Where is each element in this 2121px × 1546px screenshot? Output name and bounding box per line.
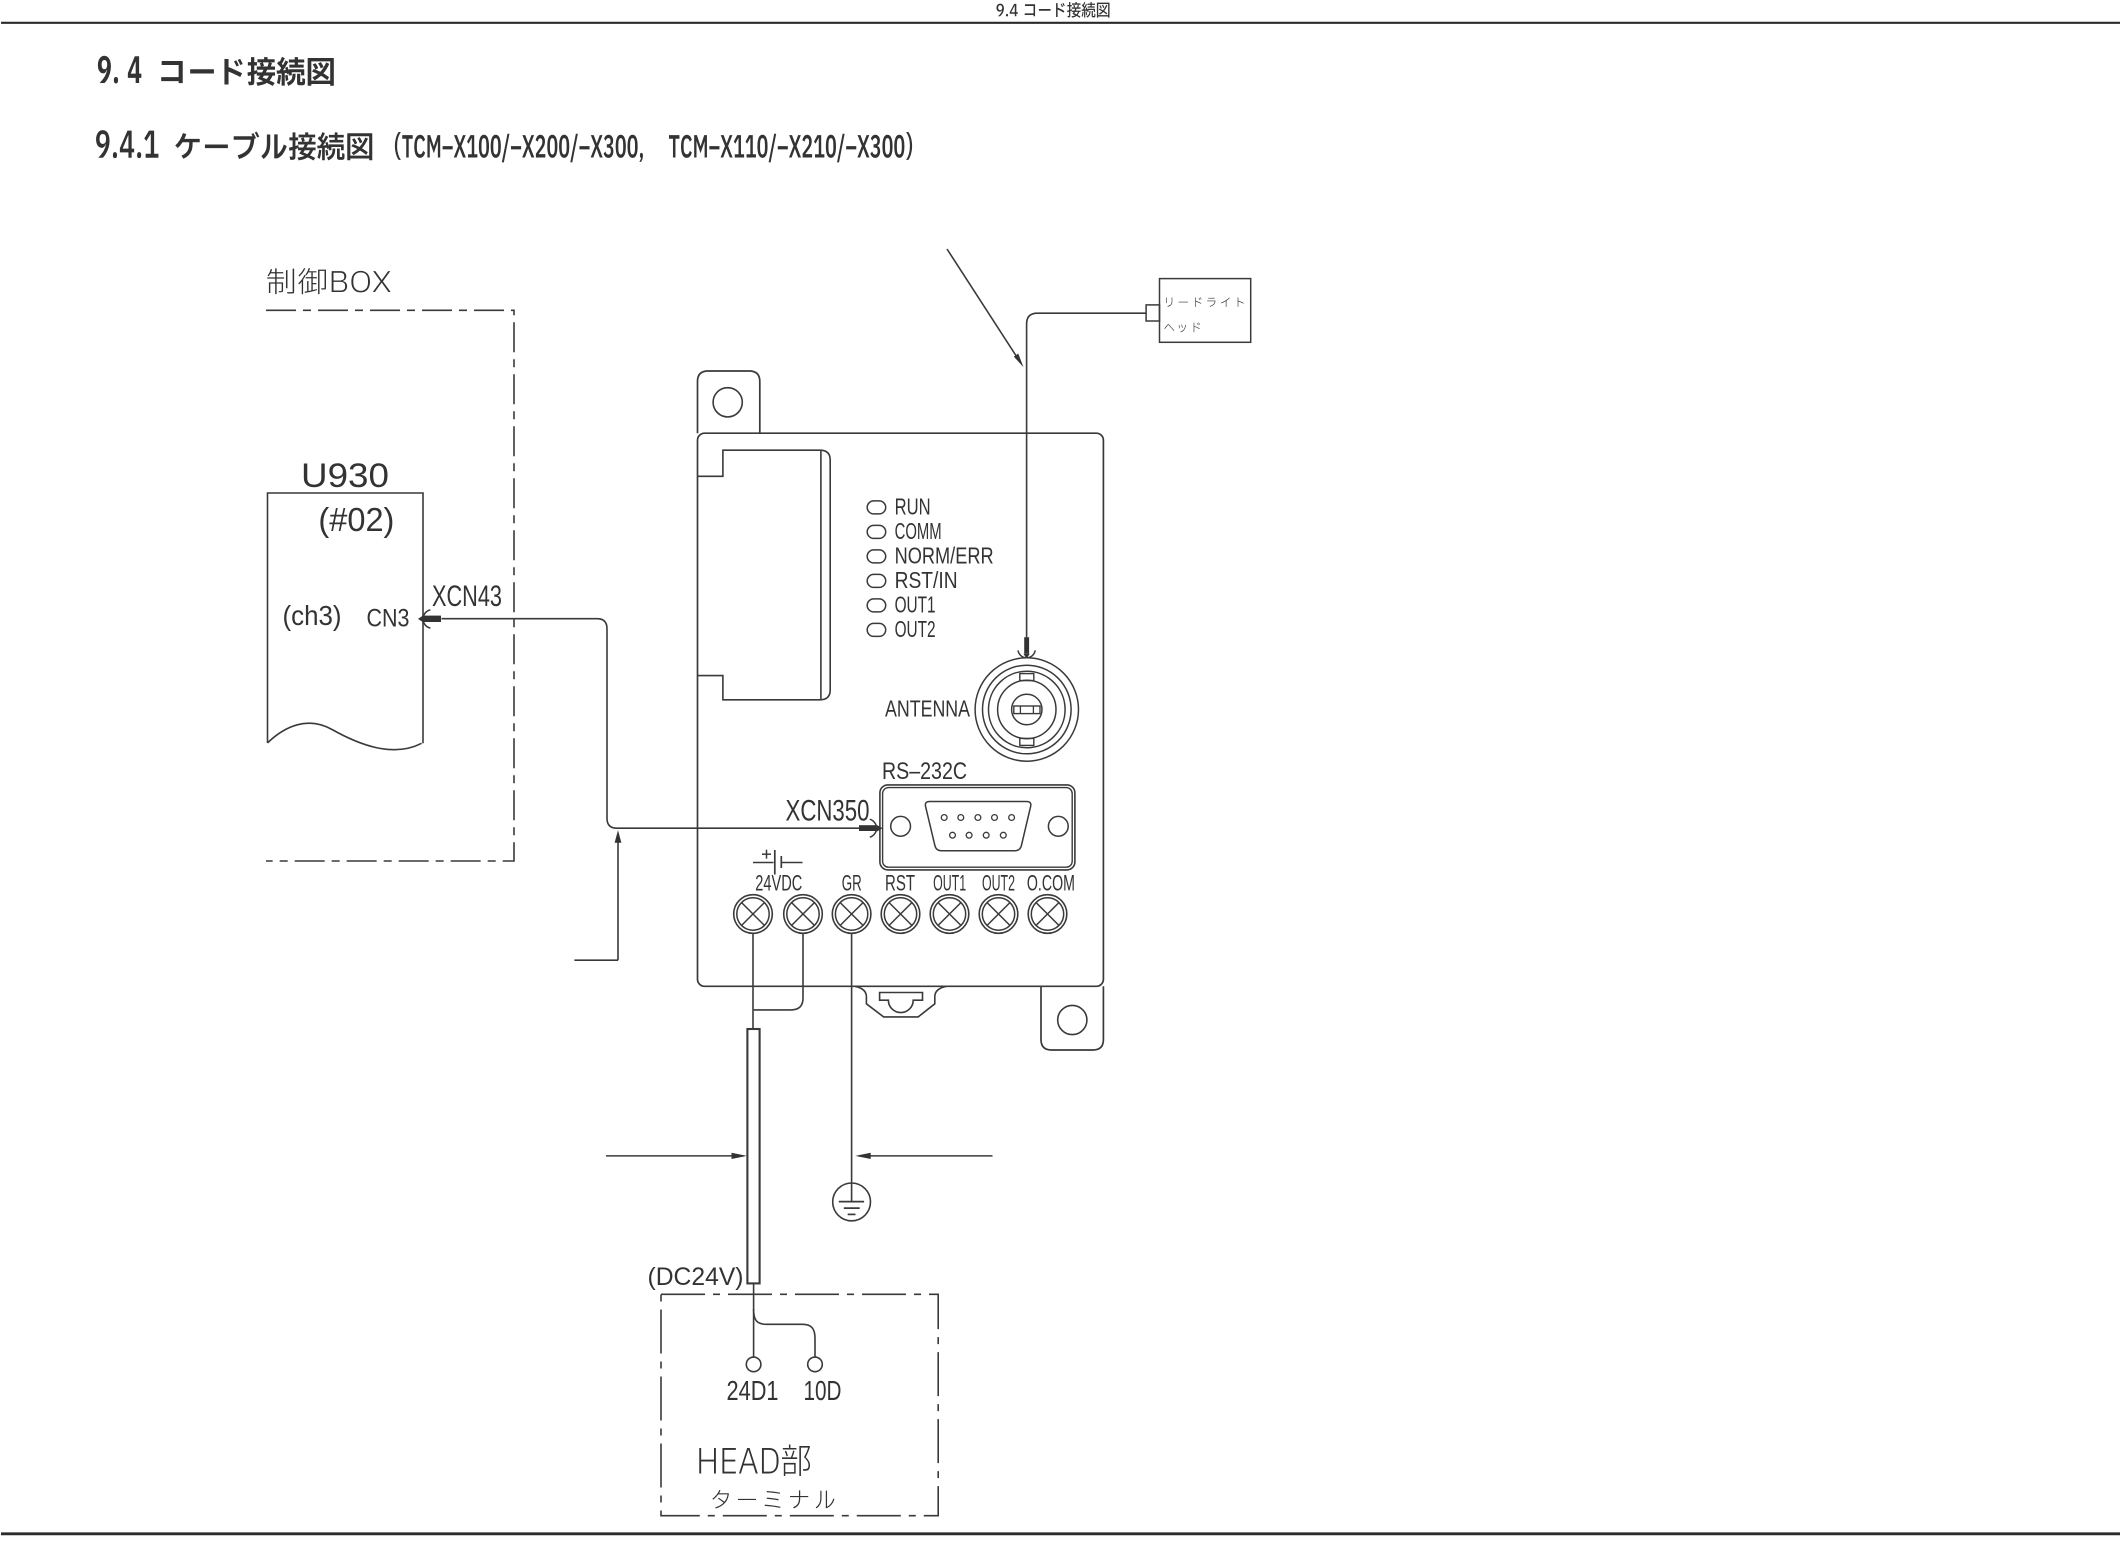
socket arc at CN3 xyxy=(423,610,430,628)
terminal screw RST xyxy=(881,895,920,934)
antenna connector top key xyxy=(1020,674,1034,681)
svg-text:24VDC: 24VDC xyxy=(755,870,802,895)
power cable sheath xyxy=(747,1029,759,1283)
wire antenna cable from head xyxy=(1027,313,1147,637)
plug bar at XCN350 xyxy=(859,825,876,831)
svg-text:(ch3): (ch3) xyxy=(283,600,342,631)
wire cable to terminal 24D1 xyxy=(753,1283,755,1357)
svg-text:O.COM: O.COM xyxy=(1027,870,1075,895)
side connector inner edge xyxy=(820,450,822,700)
U930 box outline xyxy=(268,493,424,743)
socket arc at antenna xyxy=(1018,650,1035,657)
svg-text:GR: GR xyxy=(842,870,862,895)
wire 24VDC- joining cable xyxy=(754,933,803,1010)
RS-232C connector outer frame xyxy=(880,785,1075,870)
plug tip at CN3 xyxy=(418,615,424,623)
label HEAD部 xyxy=(699,1445,810,1477)
D-sub shell xyxy=(925,802,1030,851)
LED OUT2 xyxy=(867,623,886,636)
control box dashed outline xyxy=(266,310,514,861)
svg-text:OUT1: OUT1 xyxy=(933,870,966,895)
plug bar at antenna xyxy=(1024,637,1029,654)
up arrowhead on leader xyxy=(615,830,622,843)
section heading 9.4 コード接続図 xyxy=(98,56,141,84)
side connector flange xyxy=(821,450,830,700)
antenna connector bottom key xyxy=(1020,738,1034,745)
terminal screw O.COM xyxy=(1028,895,1067,934)
svg-text:10D: 10D xyxy=(804,1375,842,1406)
top rule xyxy=(1,22,2120,24)
svg-text:U930: U930 xyxy=(301,457,389,495)
side connector body xyxy=(698,450,821,700)
right dimension line xyxy=(859,1155,993,1157)
label ヘッド xyxy=(1164,322,1200,332)
subsection heading 9.4.1 ケーブル接続図 xyxy=(96,130,158,158)
LED RUN xyxy=(867,501,886,514)
top mounting hole xyxy=(713,388,742,417)
top mounting tab xyxy=(698,371,760,433)
wire XCN43 from CN3 to XCN350 xyxy=(442,619,860,829)
wire GR down to earth xyxy=(851,933,853,1201)
svg-text:OUT2: OUT2 xyxy=(895,616,936,642)
svg-text:RS–232C: RS–232C xyxy=(882,758,967,785)
plug tip at XCN350 xyxy=(876,824,883,832)
earth ground symbol xyxy=(833,1183,871,1221)
plug bar at CN3 xyxy=(424,616,441,622)
ANTENNA BNC connector xyxy=(975,658,1078,761)
RS-232C left screw hole xyxy=(891,816,911,836)
svg-text:CN3: CN3 xyxy=(367,604,410,632)
battery / DC source symbol xyxy=(753,862,774,864)
svg-text:(DC24V): (DC24V) xyxy=(648,1263,744,1291)
terminal screw 24VDC- xyxy=(784,895,823,934)
wire branch to terminal 10D xyxy=(754,1309,815,1357)
bottom rule xyxy=(1,1532,2120,1535)
svg-text:XCN350: XCN350 xyxy=(786,795,870,828)
LED NORM/ERR xyxy=(867,550,886,563)
terminal 24D1 xyxy=(746,1357,761,1372)
svg-text:ANTENNA: ANTENNA xyxy=(885,695,971,721)
right-pointing arrowhead xyxy=(732,1153,747,1159)
terminal screw GR xyxy=(832,895,871,934)
LED OUT1 xyxy=(867,599,886,612)
terminal screw OUT1 xyxy=(930,895,969,934)
head cable plug xyxy=(1146,305,1159,321)
RS-232C connector inner frame xyxy=(883,788,1073,868)
svg-text:COMM: COMM xyxy=(895,518,942,544)
leader line to XCN350 wire xyxy=(574,835,618,961)
terminal screw 24VDC+ xyxy=(734,895,773,934)
D-sub pins xyxy=(941,815,947,821)
label ターミナル xyxy=(712,1490,834,1508)
DIN rail clip outline xyxy=(855,986,946,1017)
TCM-X unit body outline xyxy=(698,433,1104,986)
svg-text:NORM/ERR: NORM/ERR xyxy=(895,543,994,569)
svg-text:RST: RST xyxy=(885,870,915,895)
arrowhead of diagonal leader xyxy=(1014,354,1024,368)
plug tip at antenna xyxy=(1023,654,1029,659)
socket arc at XCN350 xyxy=(870,819,877,837)
read/write head box xyxy=(1160,279,1251,343)
svg-text:OUT2: OUT2 xyxy=(982,870,1015,895)
svg-text:RUN: RUN xyxy=(895,494,931,520)
svg-text:XCN43: XCN43 xyxy=(432,580,502,613)
bottom mounting tab xyxy=(1041,986,1103,1050)
svg-text:24D1: 24D1 xyxy=(727,1375,779,1406)
LED RST/IN xyxy=(867,574,886,587)
left-pointing arrowhead xyxy=(855,1153,870,1159)
terminal screw OUT2 xyxy=(979,895,1018,934)
HEAD terminal dashed box xyxy=(661,1294,938,1515)
svg-text:(#02): (#02) xyxy=(318,501,394,538)
terminal 10D xyxy=(808,1357,823,1372)
label 制御BOX xyxy=(267,268,390,294)
DIN rail clip latch xyxy=(880,993,923,1013)
diagonal leader line to antenna cable xyxy=(947,249,1020,362)
label リードライト xyxy=(1166,297,1244,307)
wire 24VDC+ down to cable xyxy=(752,933,754,1029)
U930 box torn bottom edge xyxy=(268,723,422,749)
LED COMM xyxy=(867,525,886,538)
left dimension line xyxy=(606,1155,744,1157)
page header text 9.4 コード接続図 xyxy=(996,2,1109,18)
antenna center slot xyxy=(1014,706,1040,714)
svg-text:RST/IN: RST/IN xyxy=(895,567,958,593)
bottom mounting hole xyxy=(1058,1005,1087,1034)
RS-232C right screw hole xyxy=(1048,816,1068,836)
svg-text:OUT1: OUT1 xyxy=(895,592,936,618)
